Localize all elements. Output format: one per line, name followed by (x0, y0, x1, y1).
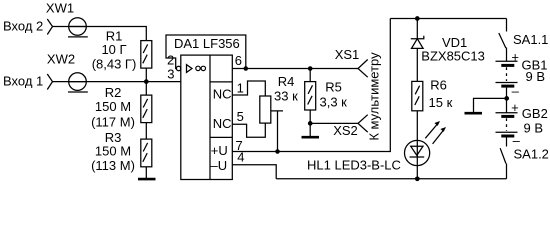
svg-text:1: 1 (237, 81, 244, 96)
svg-text:33 к: 33 к (274, 88, 298, 103)
wire pin 4 -U to bottom rail (232, 165, 276, 179)
wire midpoint to GB2 (506, 98, 508, 112)
connector XW2 label (47, 52, 75, 67)
wire XW2 plug to socket (53, 81, 87, 83)
junction R5 top (308, 66, 313, 71)
svg-text:XS2: XS2 (333, 123, 358, 138)
svg-text:150 М: 150 М (95, 99, 131, 114)
svg-text:К мультиметру: К мультиметру (367, 52, 382, 141)
svg-text:Вход 1: Вход 1 (3, 73, 43, 88)
svg-text:15 к: 15 к (429, 95, 453, 110)
svg-text:4: 4 (237, 150, 244, 165)
wire SA1.1 to GB1 (506, 48, 508, 62)
junction R4 tap on +U rail (275, 149, 280, 154)
LED HL1 label (307, 158, 401, 173)
op-amp U1 triangle and infinity symbol (187, 65, 206, 73)
junction battery midpoint (504, 96, 509, 101)
svg-text:(117 М): (117 М) (91, 115, 135, 130)
resistor R1 label (92, 29, 137, 72)
resistor R4 label (274, 74, 298, 103)
svg-text:–U: –U (211, 158, 228, 173)
battery GB2 label (522, 106, 548, 135)
resistor R4 wiper tap (271, 111, 283, 152)
battery GB2 (496, 113, 518, 136)
battery GB2 plus sign (511, 100, 519, 115)
svg-text:–: – (512, 84, 520, 99)
label +U (211, 143, 228, 158)
wire pin 7 +U rail to riser (232, 19, 390, 152)
op-amp U1 inverting input circle pin 2 (176, 66, 180, 70)
connector XW1 label (46, 1, 74, 16)
svg-text:9 В: 9 В (524, 120, 544, 135)
svg-text:XS1: XS1 (335, 47, 360, 62)
wire pin 1 to R4 top (232, 81, 265, 96)
label -U (211, 158, 228, 173)
svg-text:R2: R2 (105, 85, 122, 100)
zener VD1 label (421, 35, 485, 64)
zener diode VD1 (411, 36, 424, 49)
battery GB1 (496, 61, 518, 86)
resistor R5 (305, 82, 316, 110)
svg-text:DA1 LF356: DA1 LF356 (174, 36, 240, 51)
wire R6 to LED (416, 111, 418, 179)
junction VD1 top (415, 16, 420, 21)
wire ground stub under R5 (309, 123, 311, 137)
connector XW2 socket bar (68, 91, 88, 93)
LED HL1 arrows (425, 121, 446, 144)
wire pin 6 output to XS1 (232, 68, 358, 70)
svg-text:10 Г: 10 Г (101, 42, 126, 57)
wire XW2 to pin 3 (69, 81, 181, 83)
svg-text:(113 М): (113 М) (91, 158, 135, 173)
junction pin6 feedback (244, 66, 249, 71)
pin number 3 (167, 66, 174, 81)
connector XW1 socket circle (69, 18, 87, 36)
resistor R6 (412, 81, 423, 110)
svg-text:R4: R4 (278, 74, 295, 89)
svg-text:BZX85C13: BZX85C13 (421, 49, 485, 64)
ground battery midpoint (465, 112, 483, 115)
switch SA1.1 blade (499, 33, 506, 48)
resistor R2 (141, 95, 152, 123)
wire XS2 (310, 122, 358, 124)
svg-text:VD1: VD1 (442, 35, 467, 50)
wire XW1 plug to socket (53, 26, 87, 28)
wire XW1 to R1 (69, 27, 147, 41)
wire bottom rail (276, 178, 506, 180)
node A junction (144, 79, 149, 84)
ground under R5 (302, 136, 320, 139)
wire R1 to node A (145, 68, 147, 82)
svg-text:Вход 2: Вход 2 (3, 18, 43, 33)
wire top rail to VD1 (416, 19, 418, 39)
wire top rail (390, 18, 506, 20)
connector XS2 socket (358, 115, 368, 132)
svg-text:3,3 к: 3,3 к (320, 94, 348, 109)
svg-text:5: 5 (237, 109, 244, 124)
wire midpoint to ground (474, 98, 507, 112)
connector XS1 socket (358, 60, 368, 78)
svg-text:SA1.1: SA1.1 (513, 32, 548, 47)
wire pin 5 to R4 bottom (232, 123, 265, 137)
connector XS2 label (333, 123, 358, 138)
wire SA1.2 to bottom rail (506, 164, 508, 179)
battery GB1 label (522, 58, 548, 85)
resistor R6 label (429, 78, 453, 110)
wire R5 bottom stub (309, 110, 311, 123)
resistor R3 label (91, 130, 135, 173)
svg-text:2: 2 (167, 53, 174, 68)
wire R3 to ground (145, 167, 147, 179)
pin number 6 (235, 53, 242, 68)
ground under R3 (138, 178, 156, 181)
svg-text:R6: R6 (430, 78, 447, 93)
battery GB1 plus sign (511, 49, 519, 64)
resistor R2 label (91, 85, 135, 130)
svg-text:GB2: GB2 (522, 106, 548, 121)
connector XW1 socket bar (68, 36, 88, 38)
svg-text:3: 3 (167, 66, 174, 81)
connector XS1 label (335, 47, 360, 62)
label NC upper (213, 86, 232, 101)
svg-text:NC: NC (213, 116, 232, 131)
wire R2 to R3 (145, 123, 147, 140)
wire node A to R2 (145, 82, 147, 96)
switch SA1.2 blade (500, 148, 506, 163)
switch SA1.1 label (513, 32, 548, 47)
wire R5 top stub (309, 69, 311, 82)
connector XW2 socket circle (69, 73, 87, 91)
svg-text:R5: R5 (325, 80, 342, 95)
wire GB1 to mid junction (506, 88, 508, 99)
connector XW1 plug chevron (47, 19, 52, 35)
junction LED bottom rail (415, 176, 420, 181)
pin number 4 (237, 150, 244, 165)
node Вход 2 label (3, 18, 43, 33)
junction R5 bottom (308, 121, 313, 126)
node Вход 1 label (3, 73, 43, 88)
svg-text:SA1.2: SA1.2 (514, 147, 549, 162)
wire VD1 to R6 (416, 48, 418, 81)
op-amp U1 label DA1 LF356 (174, 36, 240, 51)
svg-text:NC: NC (213, 86, 232, 101)
svg-text:+: + (511, 49, 519, 64)
svg-text:9 В: 9 В (526, 69, 546, 84)
pin number 7 (236, 138, 243, 153)
svg-text:XW2: XW2 (47, 52, 75, 67)
svg-text:HL1 LED3-B-LC: HL1 LED3-B-LC (307, 158, 401, 173)
wire top rail corner to SA1.1 (506, 19, 508, 32)
switch SA1.2 label (514, 147, 549, 162)
battery GB1 minus sign (512, 84, 520, 99)
resistor R5 label (320, 80, 348, 110)
label К мультиметру (367, 52, 382, 141)
LED HL1 (405, 140, 430, 165)
svg-text:+U: +U (211, 143, 228, 158)
resistor R1 (141, 41, 152, 69)
pin number 5 (237, 109, 244, 124)
pin number 1 (237, 81, 244, 96)
svg-text:(8,43 Г): (8,43 Г) (92, 56, 137, 71)
svg-text:XW1: XW1 (46, 1, 74, 16)
pin number 2 (167, 53, 174, 68)
wire feedback loop pin6 to pin2 (166, 35, 246, 69)
label NC lower (213, 116, 232, 131)
resistor R4 trimmer (260, 96, 271, 123)
op-amp U1 body (181, 55, 233, 179)
battery GB2 minus sign (513, 133, 521, 148)
resistor R3 (141, 139, 152, 167)
wire GB2 to SA1.2 (506, 138, 508, 147)
connector XW2 plug chevron (47, 74, 52, 90)
svg-text:6: 6 (235, 53, 242, 68)
svg-text:150 М: 150 М (95, 143, 131, 158)
